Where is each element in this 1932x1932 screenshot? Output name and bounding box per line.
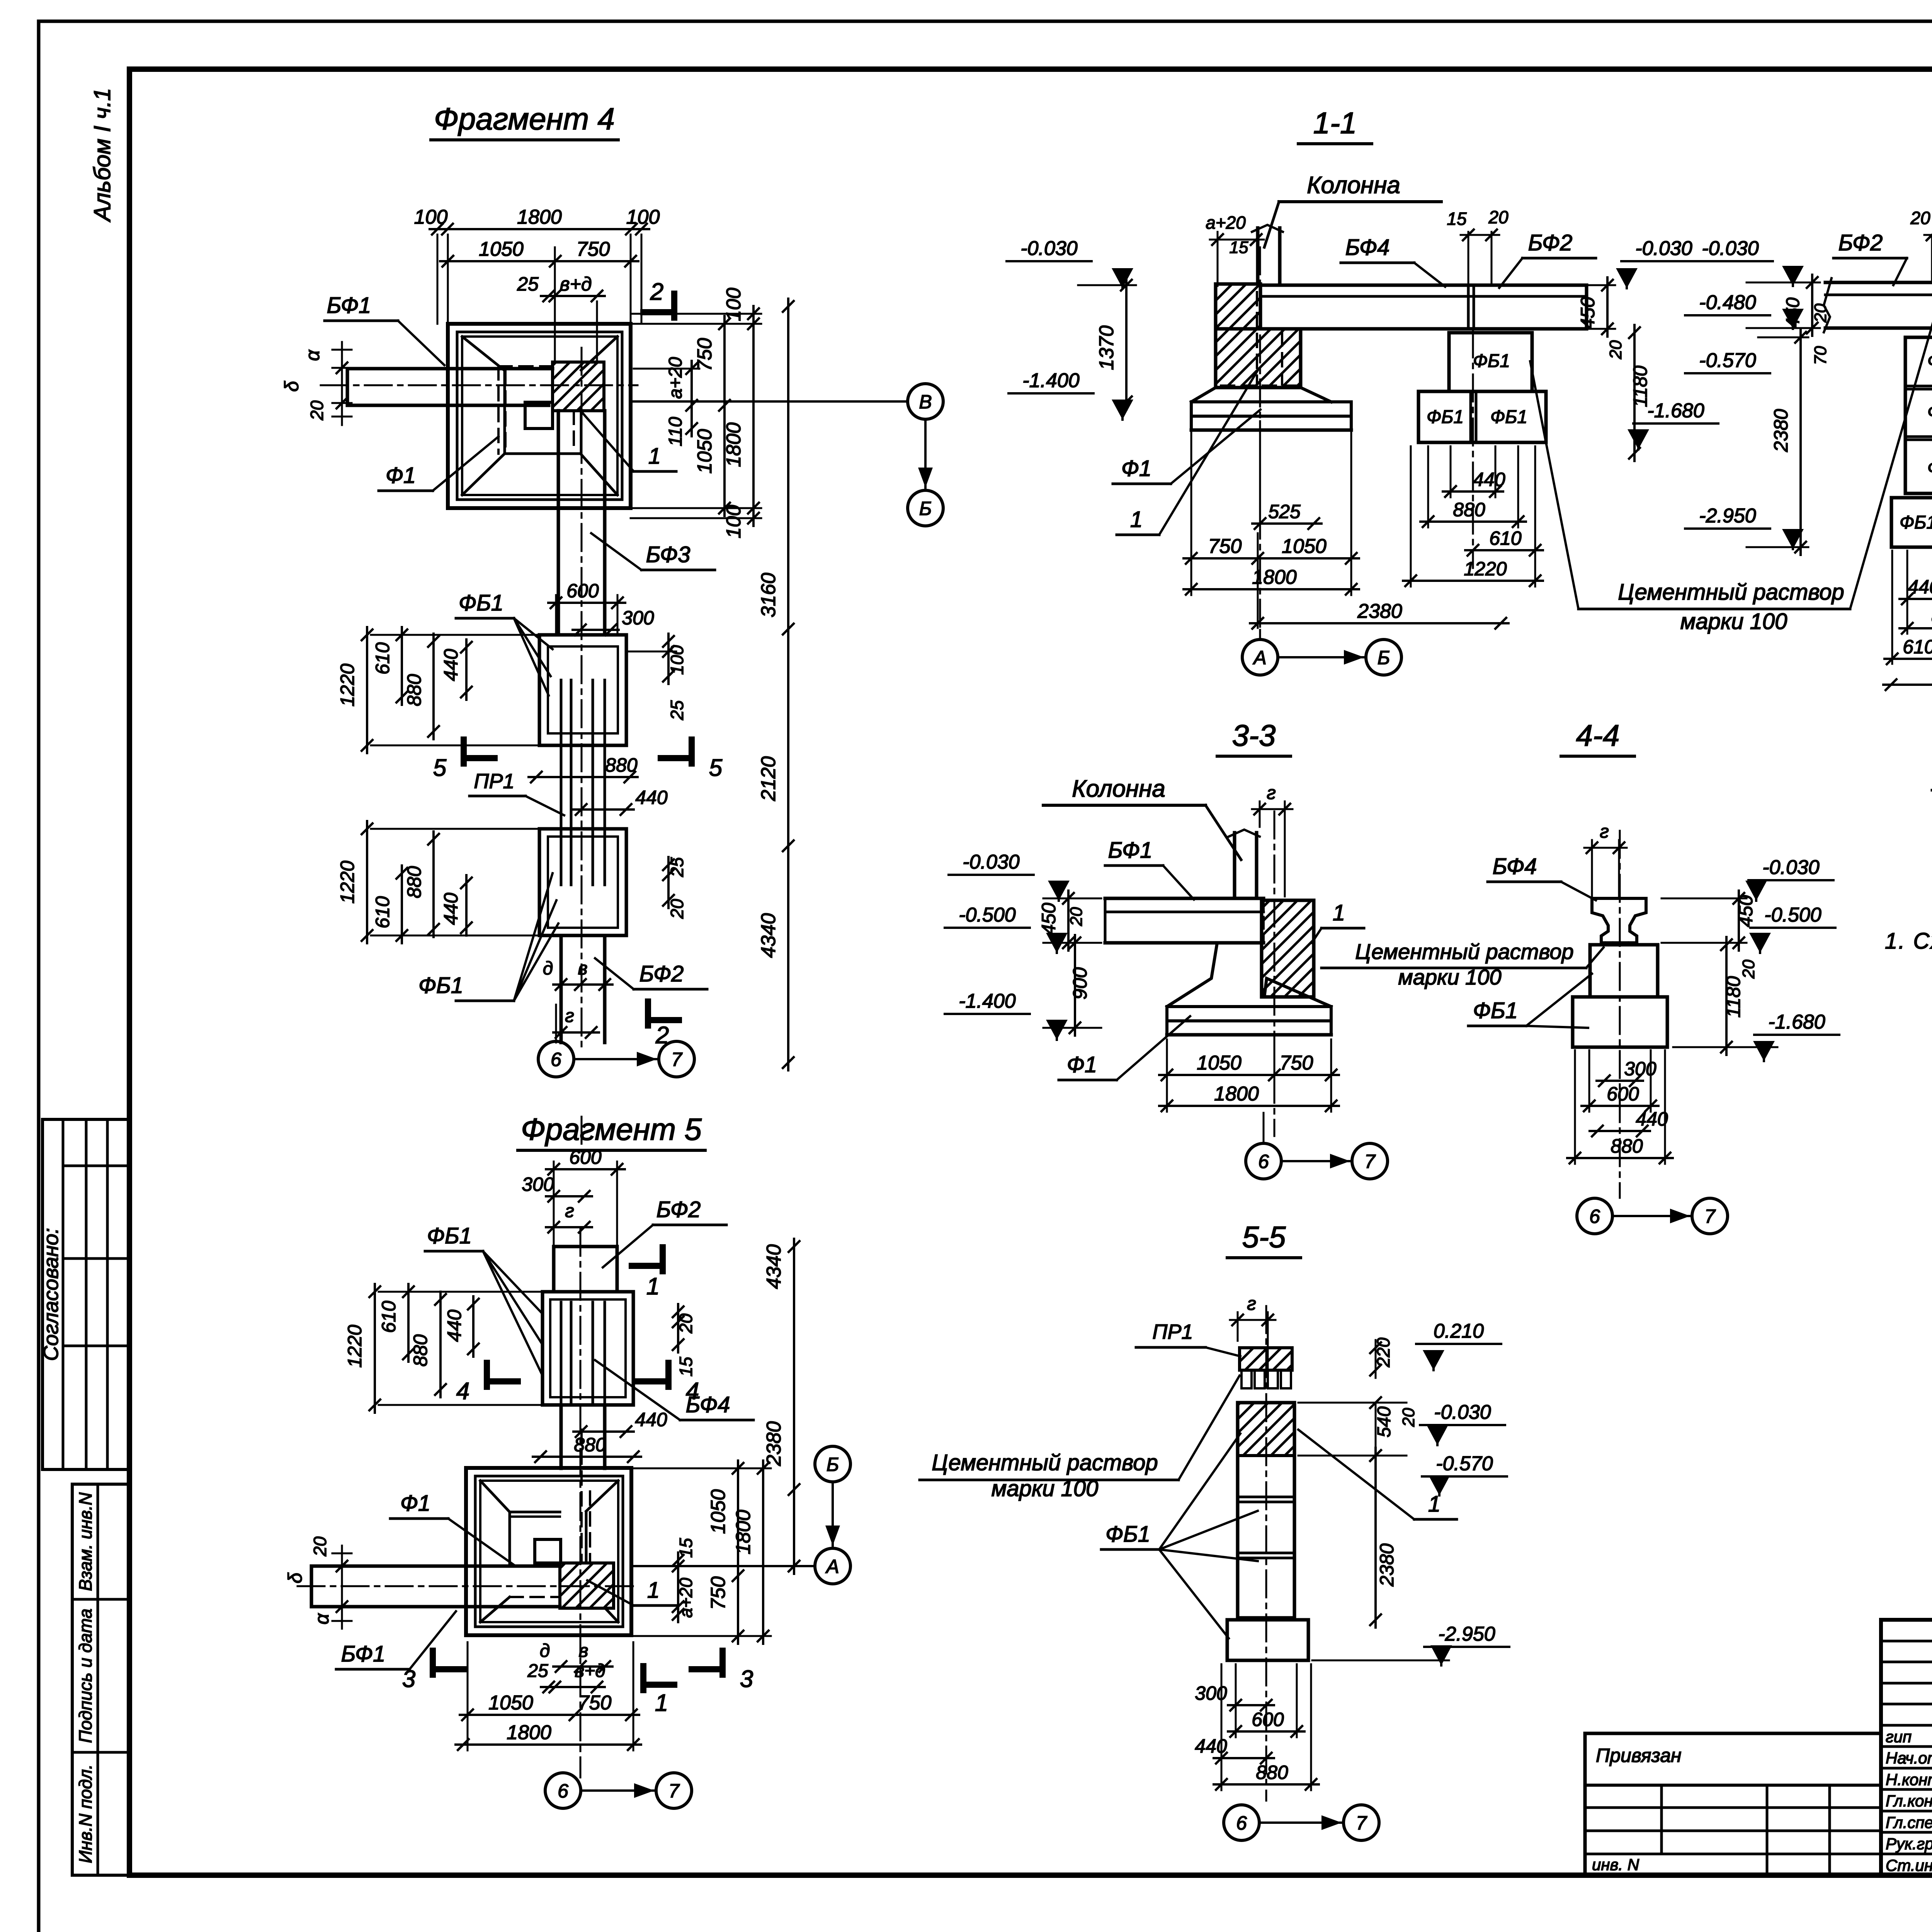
svg-text:7: 7 bbox=[1704, 1206, 1716, 1227]
F5 axis circle B and arrow bbox=[815, 1446, 850, 1482]
left table Vzam/Podpis/Inv bbox=[72, 1484, 130, 1875]
F4 beam BF2 below bbox=[560, 935, 563, 1043]
F5 small square detail bbox=[535, 1539, 561, 1563]
svg-text:610: 610 bbox=[1489, 527, 1522, 549]
S11 stack dims below bbox=[1443, 490, 1503, 493]
S44 centerline bbox=[1619, 831, 1621, 1198]
svg-text:750: 750 bbox=[577, 238, 610, 260]
svg-text:ФБ1: ФБ1 bbox=[1927, 351, 1932, 371]
F5 beam BF2 top bbox=[552, 1247, 556, 1292]
svg-text:-1.680: -1.680 bbox=[1647, 400, 1704, 422]
S55 teeth row bbox=[1242, 1370, 1252, 1388]
F4 dim 600 bbox=[548, 602, 625, 604]
S55 centerline bbox=[1265, 1306, 1267, 1801]
svg-text:440: 440 bbox=[1908, 576, 1932, 598]
svg-text:750: 750 bbox=[694, 338, 716, 372]
F5 footing diagonals bbox=[480, 1481, 510, 1512]
S11 column bbox=[1256, 228, 1260, 284]
svg-text:450: 450 bbox=[1038, 903, 1060, 935]
svg-text:1050: 1050 bbox=[1197, 1052, 1242, 1074]
svg-text:1800: 1800 bbox=[732, 1510, 755, 1554]
svg-text:г: г bbox=[565, 1006, 574, 1026]
svg-text:15: 15 bbox=[1447, 209, 1467, 229]
svg-text:600: 600 bbox=[1252, 1709, 1284, 1730]
svg-text:880: 880 bbox=[403, 674, 425, 706]
svg-text:в+д: в+д bbox=[560, 273, 592, 295]
F4 right dims col a+20 110 bbox=[690, 361, 693, 436]
F5 axis circles 6 7 bbox=[545, 1773, 581, 1808]
svg-text:-0.030: -0.030 bbox=[1434, 1401, 1491, 1423]
svg-text:Нач.отд.: Нач.отд. bbox=[1886, 1749, 1932, 1767]
F4 group1 left dims bbox=[366, 627, 368, 753]
svg-text:БФ2: БФ2 bbox=[1528, 230, 1573, 255]
svg-text:440: 440 bbox=[444, 1310, 465, 1342]
svg-text:БФ3: БФ3 bbox=[646, 542, 690, 567]
svg-text:20: 20 bbox=[307, 400, 327, 421]
svg-text:1800: 1800 bbox=[723, 422, 745, 467]
svg-text:г: г bbox=[1267, 783, 1276, 803]
svg-text:2120: 2120 bbox=[757, 756, 780, 801]
S33 footing profile bbox=[1167, 943, 1217, 1007]
F5 right dims 20 15 bbox=[677, 1304, 679, 1352]
svg-text:440: 440 bbox=[440, 893, 462, 925]
S33 column bbox=[1233, 833, 1236, 898]
svg-text:15: 15 bbox=[1230, 238, 1248, 257]
svg-text:ФБ1: ФБ1 bbox=[1927, 458, 1932, 478]
svg-text:Б: Б bbox=[1378, 647, 1390, 668]
S55 bottom block bbox=[1227, 1620, 1308, 1660]
svg-text:20: 20 bbox=[1739, 959, 1758, 979]
svg-text:20: 20 bbox=[1067, 907, 1086, 926]
S22 left dims 450 20 70 2380 bbox=[1811, 275, 1813, 336]
svg-text:-0.570: -0.570 bbox=[1436, 1452, 1493, 1475]
F5 bottom 1050 750 bbox=[460, 1714, 639, 1716]
F4 axis circle B bbox=[908, 490, 943, 526]
svg-text:1: 1 bbox=[655, 1690, 668, 1716]
svg-text:880: 880 bbox=[574, 1434, 606, 1456]
S11 axis circles A B bbox=[1242, 639, 1278, 675]
svg-text:610: 610 bbox=[372, 642, 393, 675]
svg-text:440: 440 bbox=[635, 787, 668, 808]
svg-text:440: 440 bbox=[1636, 1108, 1668, 1130]
svg-text:1800: 1800 bbox=[1252, 566, 1297, 588]
svg-text:600: 600 bbox=[569, 1146, 602, 1168]
svg-text:100: 100 bbox=[723, 288, 745, 321]
svg-text:25: 25 bbox=[527, 1661, 548, 1681]
F5 bottom 1800 bbox=[456, 1743, 641, 1746]
stamp staff table bbox=[1881, 1620, 1932, 1875]
svg-text:а+20: а+20 bbox=[1206, 213, 1246, 233]
svg-text:6: 6 bbox=[558, 1780, 568, 1802]
svg-text:1180: 1180 bbox=[1723, 976, 1744, 1018]
svg-text:6: 6 bbox=[1258, 1151, 1269, 1172]
svg-text:100: 100 bbox=[626, 206, 660, 228]
svg-text:Привязан: Привязан bbox=[1596, 1745, 1682, 1766]
svg-text:Колонна: Колонна bbox=[1307, 172, 1400, 199]
svg-text:а+20: а+20 bbox=[665, 357, 686, 399]
F4 hatched column joint bbox=[553, 362, 604, 411]
F4 group2 left dims bbox=[366, 821, 368, 943]
svg-text:-0.030: -0.030 bbox=[1702, 237, 1759, 260]
svg-text:инв. N: инв. N bbox=[1592, 1855, 1639, 1874]
svg-text:ПР1: ПР1 bbox=[1152, 1320, 1193, 1344]
svg-text:750: 750 bbox=[578, 1692, 612, 1714]
svg-text:1: 1 bbox=[1333, 900, 1345, 925]
svg-text:1-1: 1-1 bbox=[1313, 106, 1357, 140]
S44 beam BF4 T-profile bbox=[1592, 898, 1646, 943]
S44 dims right 450 20 1180 bbox=[1738, 891, 1740, 951]
svg-text:300: 300 bbox=[622, 607, 654, 629]
S33 centerline bbox=[1274, 811, 1276, 1136]
svg-text:2380: 2380 bbox=[1376, 1543, 1398, 1587]
svg-text:880: 880 bbox=[1256, 1762, 1288, 1783]
svg-text:610: 610 bbox=[1903, 636, 1932, 658]
svg-text:1800: 1800 bbox=[507, 1721, 551, 1744]
svg-text:1: 1 bbox=[1130, 507, 1143, 532]
S33 dims below bbox=[1159, 1074, 1339, 1076]
svg-text:-0.570: -0.570 bbox=[1699, 349, 1756, 372]
svg-text:880: 880 bbox=[605, 754, 638, 776]
svg-text:540: 540 bbox=[1374, 1406, 1395, 1437]
svg-text:Фрагмент 4: Фрагмент 4 bbox=[434, 102, 615, 136]
S11 hatched pedestal lower part bbox=[1216, 329, 1301, 388]
svg-text:Взам. инв.N: Взам. инв.N bbox=[75, 1492, 95, 1591]
svg-text:5: 5 bbox=[709, 755, 723, 781]
F5 section marks 3-3 bbox=[430, 1651, 436, 1675]
svg-text:7: 7 bbox=[668, 1780, 680, 1802]
F5 section mark 1 bottom bbox=[640, 1666, 646, 1690]
svg-text:440: 440 bbox=[635, 1409, 667, 1430]
S11 right stack blocks bbox=[1449, 333, 1532, 391]
svg-text:70: 70 bbox=[1811, 346, 1830, 365]
F5 section marks 4-4 bbox=[484, 1363, 490, 1387]
svg-text:1370: 1370 bbox=[1095, 325, 1118, 370]
S55 column body bbox=[1238, 1403, 1294, 1618]
F4 beam BF1 from left bbox=[347, 367, 553, 371]
svg-text:БФ4: БФ4 bbox=[1493, 854, 1537, 879]
svg-text:ФБ1: ФБ1 bbox=[459, 590, 503, 616]
S11 dim 525 bbox=[1252, 522, 1321, 525]
S11 dim 1370 bbox=[1125, 277, 1128, 410]
F4 right dims col 1800 100s bbox=[752, 306, 755, 526]
svg-text:Цементный раствор: Цементный раствор bbox=[932, 1450, 1158, 1475]
svg-text:220: 220 bbox=[1373, 1337, 1393, 1367]
svg-text:д: д bbox=[540, 1641, 550, 1661]
F4 group2 right dims 25 20 bbox=[667, 857, 670, 908]
svg-text:ПР1: ПР1 bbox=[474, 770, 514, 793]
svg-text:1: 1 bbox=[648, 444, 661, 469]
svg-text:БФ1: БФ1 bbox=[341, 1641, 386, 1667]
svg-text:1: 1 bbox=[646, 1273, 660, 1300]
svg-text:3: 3 bbox=[740, 1666, 753, 1692]
svg-text:г: г bbox=[1247, 1294, 1256, 1314]
F5 beam to footing bbox=[560, 1405, 563, 1468]
svg-text:4340: 4340 bbox=[757, 913, 780, 958]
svg-text:-0.500: -0.500 bbox=[1764, 904, 1821, 926]
S55 dim 2380 bbox=[1374, 1448, 1377, 1628]
svg-text:1050: 1050 bbox=[488, 1692, 533, 1714]
svg-text:-0.030: -0.030 bbox=[1020, 237, 1078, 260]
F5 pedestal step edges bbox=[509, 1512, 511, 1566]
S44 mortar joint bbox=[1601, 942, 1640, 945]
S11 footing F1 bbox=[1191, 388, 1216, 402]
F4 label FB1 lower leaders bbox=[456, 1000, 514, 1002]
F5 dim 440 bbox=[573, 1430, 634, 1433]
S44 dims below bbox=[1597, 1080, 1643, 1082]
svg-text:-0.030: -0.030 bbox=[1762, 856, 1820, 879]
svg-text:2380: 2380 bbox=[763, 1421, 785, 1466]
svg-text:БФ4: БФ4 bbox=[1345, 235, 1390, 260]
svg-text:5-5: 5-5 bbox=[1242, 1220, 1286, 1254]
svg-text:Б: Б bbox=[919, 498, 932, 519]
svg-text:4-4: 4-4 bbox=[1576, 718, 1620, 752]
svg-text:1050: 1050 bbox=[694, 429, 716, 474]
F4 section mark 2 top bbox=[671, 294, 677, 318]
svg-text:ФБ1: ФБ1 bbox=[1427, 407, 1464, 427]
F4 pedestal step edges bbox=[503, 371, 506, 454]
S44 axis circles 6 7 bbox=[1577, 1198, 1612, 1234]
svg-text:Подпись и дата: Подпись и дата bbox=[75, 1609, 95, 1743]
F5 hatched column joint bbox=[560, 1563, 614, 1608]
F4 block group 2 bbox=[539, 829, 626, 935]
svg-text:В: В bbox=[919, 391, 932, 413]
svg-text:1220: 1220 bbox=[1464, 558, 1507, 580]
svg-text:15: 15 bbox=[676, 1538, 696, 1558]
F4 right chain 3160 2120 4340 bbox=[787, 299, 789, 1070]
F4 section mark 2 bottom bbox=[645, 1002, 651, 1026]
F5 footing outer square bbox=[466, 1468, 631, 1635]
svg-text:20: 20 bbox=[1606, 340, 1625, 359]
svg-text:20: 20 bbox=[1811, 303, 1830, 323]
svg-text:Согласовано:: Согласовано: bbox=[39, 1228, 63, 1361]
svg-text:3: 3 bbox=[402, 1666, 415, 1692]
S55 axis circles 6 7 bbox=[1224, 1805, 1259, 1840]
F4 section marks 5-5 bbox=[461, 740, 467, 764]
svg-text:7: 7 bbox=[1356, 1812, 1367, 1834]
svg-text:Альбом I ч.1: Альбом I ч.1 bbox=[89, 88, 115, 223]
svg-text:0.210: 0.210 bbox=[1434, 1320, 1484, 1342]
svg-text:600: 600 bbox=[1607, 1083, 1639, 1105]
svg-text:БФ1: БФ1 bbox=[327, 293, 371, 318]
svg-text:2: 2 bbox=[650, 279, 663, 305]
svg-text:-2.950: -2.950 bbox=[1438, 1623, 1495, 1645]
svg-text:а+20: а+20 bbox=[676, 1578, 696, 1618]
svg-text:Гл.спец.: Гл.спец. bbox=[1886, 1813, 1932, 1832]
F4 footing slope diagonals bbox=[462, 337, 505, 371]
F5 block group bbox=[543, 1292, 633, 1405]
svg-text:880: 880 bbox=[410, 1334, 431, 1367]
S11 right dims 450 20 1180 bbox=[1606, 277, 1609, 337]
svg-text:1. Схему расположения элем: 1. Схему расположения элементов фундамен… bbox=[1885, 929, 1932, 954]
F4 hidden pedestal dashes bbox=[498, 366, 574, 454]
svg-text:1050: 1050 bbox=[479, 238, 524, 260]
F4 axis arrow 6 to 7 bbox=[574, 1058, 657, 1060]
stamp left extension table bbox=[1585, 1732, 1881, 1735]
svg-text:-1.400: -1.400 bbox=[1022, 369, 1080, 392]
svg-text:Ст.инж.: Ст.инж. bbox=[1886, 1856, 1932, 1874]
svg-text:750: 750 bbox=[1280, 1052, 1313, 1074]
svg-text:ФБ1: ФБ1 bbox=[1473, 998, 1518, 1023]
F4 column BF3 lines down bbox=[557, 411, 560, 635]
S11 footing centerline bbox=[1260, 247, 1473, 630]
svg-text:БФ4: БФ4 bbox=[686, 1392, 730, 1417]
F4 axis circle V bbox=[908, 384, 943, 419]
F4 vertical centerline bbox=[581, 348, 583, 1151]
S22 left stack bbox=[1905, 337, 1932, 493]
S11 hatched pedestal upper part bbox=[1216, 284, 1260, 329]
svg-text:Гл.констр.: Гл.констр. bbox=[1886, 1792, 1932, 1810]
svg-text:20: 20 bbox=[667, 899, 687, 919]
F5 group left dims bbox=[374, 1284, 376, 1413]
svg-text:100: 100 bbox=[667, 645, 687, 675]
S33 dims 450 20 900 bbox=[1067, 891, 1070, 951]
F5 right dims 15 a+20 bbox=[677, 1553, 679, 1622]
svg-text:1: 1 bbox=[647, 1578, 660, 1603]
svg-text:-1.680: -1.680 bbox=[1768, 1011, 1825, 1033]
svg-text:880: 880 bbox=[1453, 499, 1485, 520]
svg-text:25: 25 bbox=[517, 273, 539, 295]
svg-text:Ф1: Ф1 bbox=[1067, 1052, 1097, 1077]
svg-text:100: 100 bbox=[723, 505, 745, 539]
svg-text:20: 20 bbox=[676, 1313, 696, 1334]
svg-text:5: 5 bbox=[433, 755, 447, 781]
svg-text:1050: 1050 bbox=[1282, 535, 1327, 558]
svg-text:880: 880 bbox=[1611, 1135, 1643, 1157]
svg-text:ФБ1: ФБ1 bbox=[427, 1223, 472, 1248]
svg-text:525: 525 bbox=[1268, 501, 1301, 522]
F5 right col 1800 bbox=[762, 1461, 764, 1644]
svg-text:750: 750 bbox=[707, 1577, 730, 1610]
svg-text:г: г bbox=[1600, 821, 1609, 842]
svg-text:в: в bbox=[578, 958, 587, 979]
svg-text:БФ2: БФ2 bbox=[656, 1197, 701, 1222]
svg-text:4: 4 bbox=[456, 1378, 469, 1405]
svg-text:1220: 1220 bbox=[337, 663, 358, 706]
svg-text:1220: 1220 bbox=[344, 1325, 366, 1367]
svg-text:г: г bbox=[565, 1201, 574, 1221]
svg-text:4340: 4340 bbox=[763, 1244, 785, 1289]
svg-text:в: в bbox=[578, 1641, 588, 1661]
svg-text:марки 100: марки 100 bbox=[1680, 609, 1787, 634]
svg-text:Цементный раствор: Цементный раствор bbox=[1355, 939, 1573, 964]
S33 beam BF1 bbox=[1105, 897, 1264, 900]
F5 channels verticals bbox=[560, 1302, 563, 1405]
F5 dim 880 bbox=[533, 1456, 641, 1458]
svg-text:6: 6 bbox=[551, 1049, 561, 1070]
svg-text:1220: 1220 bbox=[337, 861, 358, 903]
svg-text:25: 25 bbox=[667, 700, 687, 721]
svg-text:А: А bbox=[825, 1556, 839, 1577]
F4 dim 880 mid bbox=[529, 776, 638, 778]
svg-text:-1.400: -1.400 bbox=[959, 990, 1016, 1012]
F5 hidden dashes bbox=[510, 1430, 590, 1597]
svg-text:Фрагмент 5: Фрагмент 5 bbox=[521, 1112, 702, 1146]
S11 dim 2380 bbox=[1250, 622, 1509, 624]
svg-text:6: 6 bbox=[1236, 1812, 1247, 1834]
svg-text:ФБ1: ФБ1 bbox=[1490, 407, 1527, 427]
svg-text:БФ1: БФ1 bbox=[1108, 838, 1153, 863]
svg-text:600: 600 bbox=[566, 580, 599, 602]
svg-text:6: 6 bbox=[1589, 1206, 1600, 1227]
svg-text:3160: 3160 bbox=[757, 573, 780, 617]
svg-text:Н.контр.: Н.контр. bbox=[1886, 1770, 1932, 1789]
S33 axis circles 6 7 bbox=[1246, 1143, 1281, 1179]
svg-text:880: 880 bbox=[403, 866, 425, 898]
svg-text:25: 25 bbox=[667, 857, 687, 878]
svg-text:20: 20 bbox=[1910, 208, 1930, 228]
S11 beams lines bbox=[1260, 284, 1587, 287]
svg-text:-0.480: -0.480 bbox=[1699, 291, 1756, 314]
F4 dim 440 mid bbox=[573, 808, 634, 811]
S55 dims below bbox=[1228, 1704, 1274, 1706]
svg-text:α: α bbox=[311, 1613, 333, 1624]
S22 left stack dims below bbox=[1900, 598, 1932, 600]
S55 top PR1 hatched bbox=[1240, 1348, 1292, 1370]
svg-text:900: 900 bbox=[1069, 967, 1091, 1000]
svg-text:450: 450 bbox=[1577, 297, 1599, 329]
F5 footing inner rim bbox=[475, 1476, 623, 1627]
S22 beam BF2 left bbox=[1825, 281, 1932, 284]
F4 axis circles 6 7 bbox=[555, 1042, 557, 1043]
S55 block dividers bbox=[1238, 1496, 1294, 1498]
svg-text:110: 110 bbox=[665, 417, 686, 446]
svg-text:610: 610 bbox=[372, 896, 393, 929]
svg-text:20: 20 bbox=[310, 1536, 330, 1557]
svg-text:Инв.N подл.: Инв.N подл. bbox=[75, 1764, 95, 1863]
F5 axis circle A bbox=[815, 1548, 850, 1584]
svg-text:БФ2: БФ2 bbox=[1838, 230, 1883, 255]
svg-text:-0.500: -0.500 bbox=[959, 904, 1016, 926]
svg-text:-2.950: -2.950 bbox=[1699, 505, 1756, 527]
F4 small square detail bbox=[525, 402, 553, 429]
svg-text:15: 15 bbox=[676, 1357, 696, 1377]
F5 right chain 4340 2380 bbox=[793, 1239, 795, 1574]
F5 beam centerline bbox=[298, 1585, 638, 1587]
svg-text:Ф1: Ф1 bbox=[1121, 456, 1151, 481]
F4 footing F1 outer square bbox=[448, 324, 631, 508]
S11 beam joint PR1 bbox=[1467, 285, 1470, 329]
svg-text:1800: 1800 bbox=[1214, 1083, 1259, 1105]
svg-text:Ф1: Ф1 bbox=[400, 1491, 430, 1516]
svg-text:450: 450 bbox=[1783, 298, 1803, 328]
S11 dim 1800 bbox=[1184, 588, 1359, 590]
svg-text:300: 300 bbox=[522, 1173, 554, 1195]
S11 dim 750 1050 bbox=[1184, 557, 1359, 560]
S44 upper block bbox=[1590, 945, 1658, 997]
svg-text:гип: гип bbox=[1886, 1728, 1912, 1746]
S44 lower block bbox=[1573, 997, 1667, 1047]
svg-text:δ: δ bbox=[284, 1572, 306, 1583]
svg-text:ФБ1: ФБ1 bbox=[1473, 351, 1510, 371]
svg-text:ФБ1: ФБ1 bbox=[1105, 1522, 1150, 1547]
svg-text:Ф1: Ф1 bbox=[386, 463, 416, 488]
F4 group1 right dims 100 25 bbox=[667, 634, 670, 684]
F4 dim 300 bbox=[573, 629, 619, 631]
F4 dim row 25 v+d bbox=[541, 295, 605, 297]
svg-text:1: 1 bbox=[1428, 1492, 1440, 1517]
F4 beam BF1 centerline bbox=[321, 384, 638, 386]
svg-text:α: α bbox=[302, 349, 323, 361]
F4 axis arrow V to B bbox=[924, 419, 927, 488]
F4 top dim row 100-1800-100 bbox=[430, 228, 649, 230]
svg-text:1800: 1800 bbox=[517, 206, 562, 228]
F5 dim 300 bbox=[546, 1195, 592, 1197]
svg-text:20: 20 bbox=[1399, 1408, 1418, 1427]
svg-text:610: 610 bbox=[378, 1301, 400, 1333]
svg-text:БФ2: БФ2 bbox=[639, 961, 684, 986]
F4 channels PR1 verticals bbox=[560, 680, 563, 885]
F4 footing inner rim bbox=[457, 332, 622, 500]
